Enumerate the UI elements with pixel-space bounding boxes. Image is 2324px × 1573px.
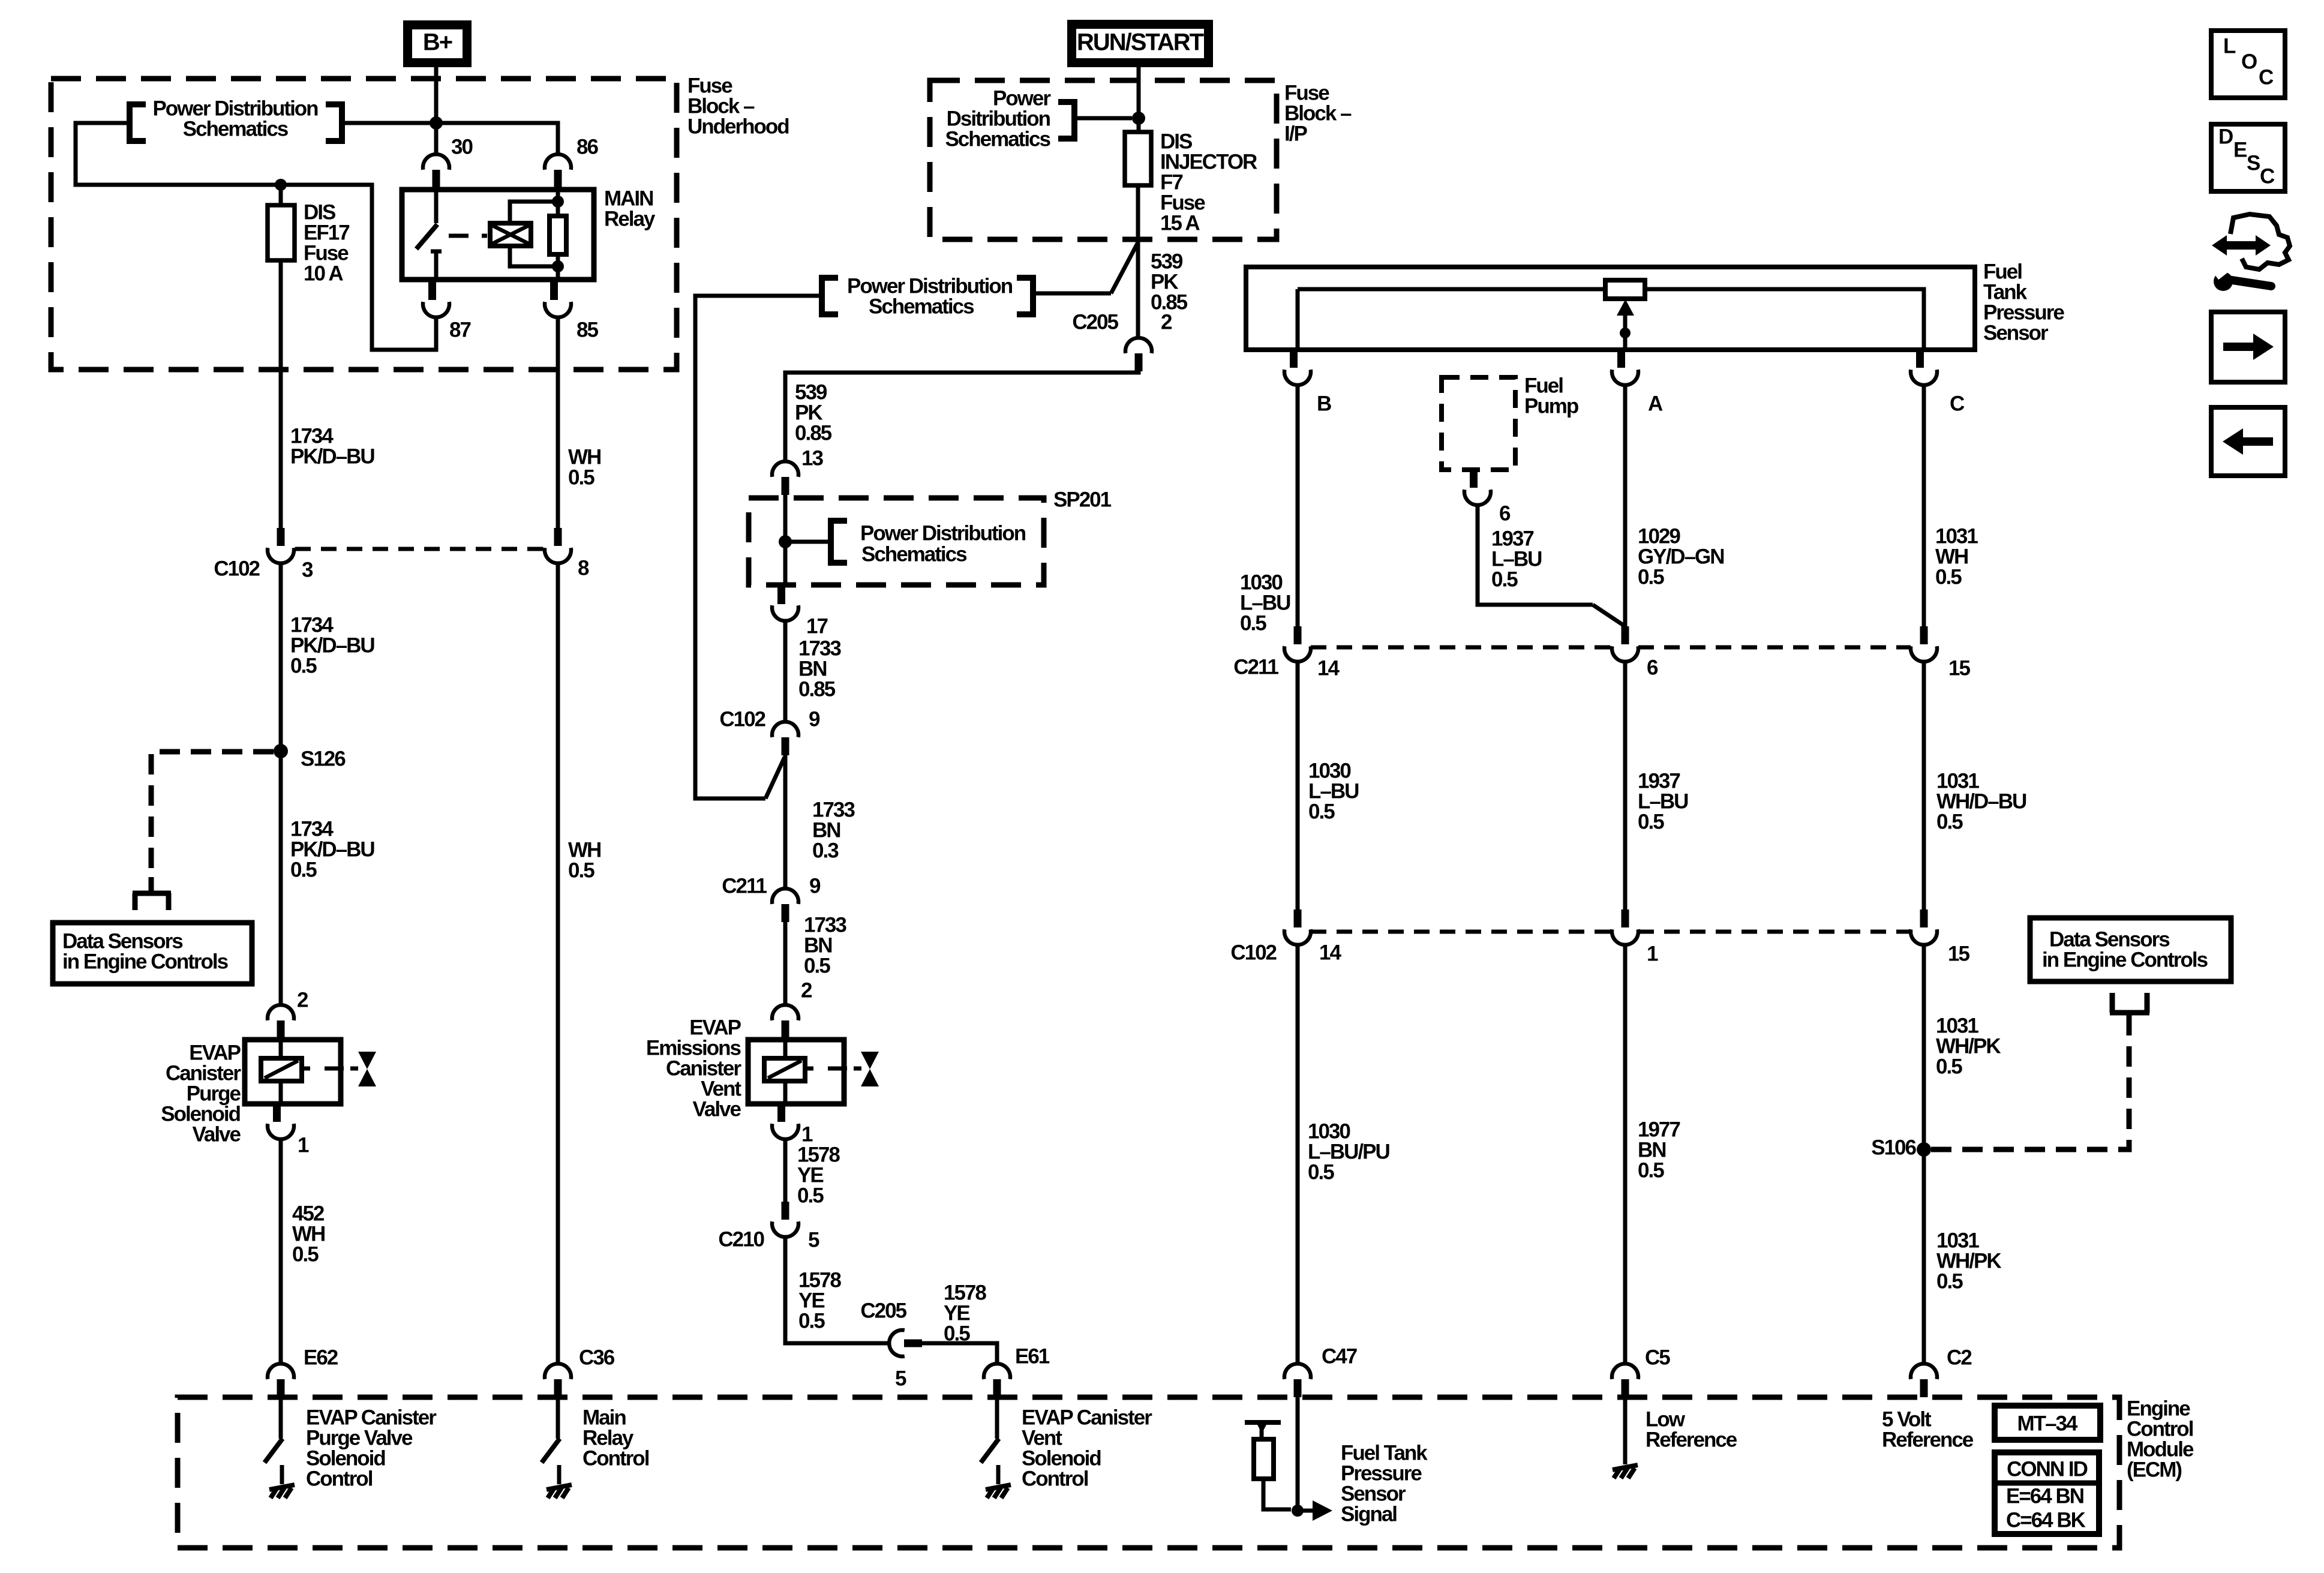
wire C36 feed — [556, 563, 560, 1364]
connector sensor pin B — [1290, 350, 1298, 368]
sensor internal wire A-drop — [1296, 289, 1300, 350]
sensor wiper arrow — [1617, 299, 1634, 316]
ECM pullup bar — [1245, 1420, 1281, 1425]
wire SP201 to C102 pin 9 — [783, 621, 788, 722]
relay switch contact — [434, 192, 439, 223]
fuel tank pressure sensor box — [1246, 267, 1975, 350]
fuse block - underhood box — [51, 79, 677, 370]
svg-text:0.5: 0.5 — [290, 655, 317, 678]
wire C205-5 to E61 — [922, 1343, 997, 1364]
svg-text:Reference: Reference — [1646, 1428, 1737, 1452]
wire A C211 to C102 — [1623, 662, 1628, 911]
wire A C102 to C5 — [1623, 945, 1628, 1364]
svg-text:C: C — [2259, 66, 2274, 89]
dashed reference from S106 — [1931, 1029, 2129, 1149]
svg-text:0.5: 0.5 — [944, 1322, 970, 1346]
svg-text:9: 9 — [809, 875, 821, 898]
fuse block - I/P box — [930, 80, 1277, 239]
wire C210 to C205-5 — [785, 1237, 889, 1343]
connector SP201 pin 17 — [777, 586, 785, 604]
svg-text:Control: Control — [306, 1467, 373, 1491]
svg-text:C205: C205 — [860, 1299, 906, 1323]
svg-text:C2: C2 — [1947, 1346, 1972, 1370]
svg-text:15: 15 — [1948, 942, 1969, 966]
wire fuse F7 to C205 pin 2 — [1136, 185, 1140, 338]
svg-text:0.5: 0.5 — [1936, 810, 1963, 834]
ground - low reference — [1623, 1445, 1628, 1464]
wire C102-3 to S126 — [279, 563, 283, 1005]
svg-text:C36: C36 — [579, 1346, 615, 1370]
wire bracket-right diagonal tap — [1033, 292, 1111, 296]
svg-text:0.5: 0.5 — [1638, 566, 1664, 589]
wire C5 to ground — [1623, 1397, 1628, 1445]
wire resistor to signal node — [1263, 1479, 1291, 1509]
svg-text:Schematics: Schematics — [869, 295, 974, 319]
data sensors in engine controls box (left) — [53, 923, 252, 984]
reference Power Distribution Schematics (mid) — [822, 278, 838, 314]
connector pin 87 — [428, 282, 436, 300]
svg-text:S: S — [2247, 152, 2260, 175]
bracket to data sensors box (right) — [2127, 1011, 2132, 1029]
svg-text:C102: C102 — [719, 708, 765, 731]
svg-text:2: 2 — [801, 979, 812, 1002]
power symbol B+ — [403, 20, 472, 67]
svg-text:3: 3 — [302, 559, 313, 582]
svg-text:C47: C47 — [1322, 1345, 1357, 1368]
connector sensor pin C — [1916, 350, 1924, 368]
vent valve solenoid coil — [783, 1040, 788, 1058]
svg-text:PK/D–BU: PK/D–BU — [290, 445, 374, 469]
connector C102 pin 1 — [1622, 909, 1629, 927]
wire C205-2 to connector 13 — [785, 370, 1139, 461]
wire C to C211-15 — [1922, 385, 1926, 626]
signal arrow — [1298, 1509, 1313, 1513]
wire A to C211-6 — [1623, 385, 1628, 626]
relay coil — [490, 223, 531, 246]
junction node I/P — [1132, 112, 1145, 125]
connector purge valve pin 1 — [273, 1104, 281, 1122]
svg-text:0.85: 0.85 — [795, 422, 832, 445]
svg-text:RUN/START: RUN/START — [1077, 29, 1204, 56]
wire B+ vertical — [434, 67, 439, 154]
svg-text:Pump: Pump — [1524, 395, 1578, 418]
svg-text:10 A: 10 A — [304, 262, 343, 286]
svg-text:E61: E61 — [1015, 1345, 1050, 1368]
ECM driver switch - purge valve control — [279, 1397, 283, 1439]
svg-text:C211: C211 — [1233, 656, 1278, 679]
svg-text:2: 2 — [1161, 311, 1172, 334]
dashed reference from S126 — [151, 752, 274, 877]
svg-text:Schematics: Schematics — [861, 543, 967, 566]
sensor internal wire C-side — [1645, 289, 1924, 350]
svg-text:O: O — [2241, 50, 2257, 74]
splice S106 — [1917, 1142, 1931, 1157]
svg-text:A: A — [1648, 392, 1663, 416]
connector C102 pin 15 — [1920, 909, 1928, 927]
svg-text:C211: C211 — [722, 875, 767, 898]
EVAP emissions canister vent valve box — [748, 1040, 844, 1104]
svg-text:E: E — [2233, 139, 2247, 162]
splice pack SP201 box — [749, 498, 1044, 585]
wire vent valve to C210 — [783, 1139, 788, 1202]
connector pin 85 — [550, 282, 558, 300]
svg-text:0.3: 0.3 — [812, 839, 839, 863]
svg-text:0.5: 0.5 — [798, 1310, 825, 1333]
svg-text:85: 85 — [577, 319, 598, 342]
svg-text:C102: C102 — [214, 557, 260, 581]
data sensors in engine controls box (right) — [2030, 918, 2231, 981]
svg-text:Power Distribution: Power Distribution — [860, 522, 1026, 545]
relay MAIN box — [402, 190, 594, 280]
ECM driver switch - main relay control — [556, 1397, 560, 1439]
icon LOC — [2211, 31, 2285, 98]
relay internal resistor — [556, 192, 560, 216]
junction node on B+ wire — [430, 116, 443, 130]
svg-text:Underhood: Underhood — [687, 115, 789, 139]
svg-text:C5: C5 — [1645, 1346, 1670, 1370]
svg-text:S126: S126 — [301, 748, 346, 771]
svg-text:E=64 BN: E=64 BN — [2006, 1485, 2083, 1508]
svg-text:0.5: 0.5 — [292, 1243, 319, 1266]
wire RUN/START to fuse F7 — [1137, 67, 1141, 132]
power symbol RUN/START — [1067, 20, 1213, 67]
svg-text:0.5: 0.5 — [1638, 1159, 1664, 1182]
EVAP canister purge solenoid valve box — [245, 1040, 341, 1104]
svg-text:86: 86 — [577, 136, 598, 159]
wire coil top to 86 branch — [510, 202, 558, 223]
svg-text:8: 8 — [578, 557, 589, 580]
svg-text:1: 1 — [298, 1134, 309, 1157]
wire B to C211-14 — [1296, 385, 1300, 626]
connector C102 pin 14 (right) — [1294, 909, 1302, 927]
wire node to fuse EF17 — [279, 185, 283, 205]
svg-text:Signal: Signal — [1341, 1503, 1397, 1526]
engine control module box — [178, 1397, 2119, 1548]
svg-text:0.5: 0.5 — [1308, 800, 1335, 824]
svg-text:Sensor: Sensor — [1983, 322, 2049, 345]
connector line C102 (left) — [295, 547, 544, 551]
svg-text:6: 6 — [1647, 656, 1658, 680]
svg-text:S106: S106 — [1871, 1136, 1916, 1160]
relay actuator dashed link — [449, 234, 487, 238]
svg-text:0.5: 0.5 — [568, 859, 594, 882]
svg-text:0.5: 0.5 — [1638, 810, 1664, 834]
ground - main relay driver — [557, 1465, 562, 1484]
vent valve actuator dashes — [805, 1067, 813, 1071]
wire C C211 to C102 — [1922, 662, 1926, 911]
junction dot signal — [1292, 1505, 1304, 1517]
wire C102-9 to C211-9 — [783, 755, 788, 888]
wire C C102 to C2 — [1922, 945, 1926, 1364]
svg-text:6: 6 — [1499, 502, 1511, 526]
svg-text:0.5: 0.5 — [1936, 1270, 1963, 1293]
wire C47 to signal node — [1296, 1397, 1300, 1512]
vent valve symbol — [861, 1052, 879, 1069]
junction dot SP201 — [779, 535, 792, 548]
svg-text:5: 5 — [808, 1229, 819, 1252]
svg-text:0.5: 0.5 — [1491, 568, 1518, 592]
connector splice pack pin 13 — [772, 461, 798, 477]
purge valve actuator dashes — [302, 1067, 310, 1071]
svg-text:Valve: Valve — [692, 1098, 741, 1121]
svg-text:MT–34: MT–34 — [2017, 1412, 2078, 1436]
svg-text:Schematics: Schematics — [945, 128, 1050, 151]
ground - purge driver — [280, 1465, 284, 1484]
bracket to data sensors box (left) — [149, 877, 154, 894]
wire bracket-left to fuse/relay-87 feed — [76, 123, 436, 350]
purge valve symbol — [358, 1052, 376, 1069]
svg-text:Valve: Valve — [192, 1123, 241, 1146]
svg-text:C=64 BK: C=64 BK — [2006, 1509, 2086, 1532]
connector C211 pin 15 — [1920, 626, 1928, 644]
connector C102 pin 8 — [554, 528, 562, 546]
ECM driver switch - vent valve control — [995, 1397, 999, 1439]
svg-text:C102: C102 — [1230, 941, 1277, 965]
svg-text:(ECM): (ECM) — [2127, 1458, 2181, 1482]
svg-text:9: 9 — [809, 708, 820, 731]
svg-text:0.5: 0.5 — [1240, 612, 1266, 635]
wire B C211 to C102 — [1296, 662, 1300, 911]
sensor element resistor — [1605, 280, 1645, 299]
svg-text:L: L — [2223, 35, 2236, 58]
svg-text:0.85: 0.85 — [798, 678, 836, 701]
wire bracket to B+ node — [342, 121, 436, 125]
svg-text:Control: Control — [1022, 1467, 1088, 1491]
svg-text:C: C — [2260, 165, 2275, 188]
junction node at fuse EF17 tap — [275, 179, 287, 191]
svg-text:Schematics: Schematics — [183, 118, 289, 141]
svg-text:0.5: 0.5 — [568, 466, 594, 490]
purge valve solenoid coil — [279, 1040, 283, 1058]
fuse EF17 — [268, 205, 295, 260]
wire C211-9 to vent valve — [783, 922, 788, 1005]
svg-text:C210: C210 — [718, 1228, 764, 1251]
svg-text:0.5: 0.5 — [1936, 1055, 1962, 1079]
svg-text:E62: E62 — [304, 1346, 338, 1370]
connector vent valve pin 1 — [777, 1104, 785, 1122]
wire fuel pump to A — [1478, 505, 1593, 605]
svg-text:Reference: Reference — [1882, 1428, 1974, 1452]
svg-text:D: D — [2218, 125, 2233, 149]
svg-text:SP201: SP201 — [1053, 488, 1112, 512]
ECM bias resistor — [1254, 1439, 1274, 1479]
connector C210 pin 5 — [782, 1202, 789, 1220]
svg-text:C205: C205 — [1072, 311, 1118, 334]
svg-text:1: 1 — [1647, 942, 1658, 966]
splice S126 — [274, 744, 288, 758]
svg-text:14: 14 — [1317, 657, 1340, 680]
connector C211 pin 14 — [1294, 626, 1302, 644]
svg-text:Control: Control — [582, 1447, 649, 1470]
icon DESC — [2211, 124, 2285, 191]
connector pin 86 — [545, 154, 571, 170]
ground - vent driver — [996, 1465, 1001, 1484]
svg-text:87: 87 — [449, 319, 470, 342]
svg-text:14: 14 — [1319, 941, 1341, 965]
reference Power Distribution Schematics (SP201) — [785, 540, 831, 544]
fuel pump box — [1442, 377, 1515, 470]
svg-text:30: 30 — [451, 136, 473, 159]
svg-text:5: 5 — [895, 1367, 906, 1391]
svg-text:17: 17 — [806, 615, 827, 638]
connector sensor pin A — [1617, 350, 1625, 368]
wire bracket-left to C102-9 node — [695, 296, 822, 798]
svg-text:13: 13 — [801, 447, 823, 470]
svg-text:0.5: 0.5 — [797, 1184, 824, 1208]
wire B+ node to relay pin 86 — [436, 123, 558, 154]
wire B C102 to C47 — [1296, 945, 1300, 1364]
svg-text:0.5: 0.5 — [1935, 566, 1962, 589]
wire through SP201 — [783, 495, 788, 586]
svg-text:in Engine Controls: in Engine Controls — [62, 950, 229, 974]
connector pin 30 — [423, 154, 449, 170]
svg-text:15 A: 15 A — [1160, 212, 1200, 235]
connector line C102 (right) — [1311, 930, 1612, 934]
icon arrow right — [2211, 312, 2285, 382]
svg-text:0.5: 0.5 — [804, 954, 830, 978]
connector fuel pump pin 6 — [1470, 470, 1478, 488]
svg-text:0.5: 0.5 — [1308, 1161, 1334, 1184]
svg-text:I/P: I/P — [1284, 122, 1307, 146]
svg-text:B: B — [1317, 392, 1331, 416]
svg-text:0.5: 0.5 — [290, 858, 317, 882]
icon service tool — [2212, 235, 2271, 256]
svg-text:Relay: Relay — [604, 208, 656, 231]
wire bracket to I/P node — [1074, 116, 1132, 121]
fuse F7 — [1125, 132, 1151, 185]
svg-text:15: 15 — [1948, 657, 1970, 680]
connector C211 pin 6 — [1622, 626, 1629, 644]
reference bracket Power Distribution Schematics (left pair) — [130, 104, 146, 141]
svg-text:CONN ID: CONN ID — [2007, 1458, 2088, 1481]
svg-text:C: C — [1950, 392, 1965, 416]
wire purge valve to E62 — [279, 1139, 283, 1364]
sensor internal wire B-side — [1298, 287, 1605, 292]
connector line C211 — [1311, 646, 1612, 650]
junction dot coil top — [552, 196, 564, 208]
wire fuse EF17 to C102 pin 3 — [279, 260, 283, 528]
MT-34 box — [1995, 1406, 2100, 1440]
svg-text:in Engine Controls: in Engine Controls — [2042, 948, 2208, 972]
svg-text:2: 2 — [297, 989, 308, 1012]
connector C102 pin 3 — [277, 528, 285, 546]
svg-text:B+: B+ — [423, 29, 452, 56]
wire relay 85 to C102 pin 8 — [556, 317, 560, 528]
wire coil bottom to 86 branch — [510, 246, 558, 266]
CONN ID box — [1995, 1452, 2099, 1534]
junction dot coil bottom — [552, 260, 564, 272]
icon arrow left — [2211, 407, 2285, 476]
